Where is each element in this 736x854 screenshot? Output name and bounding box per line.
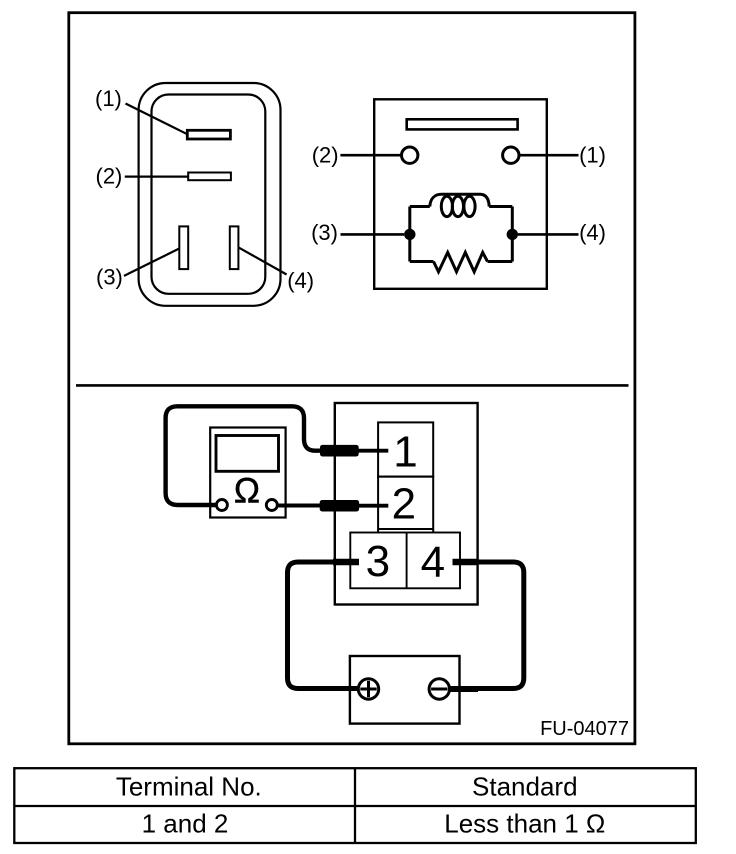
leader line (2) schematic bbox=[340, 154, 401, 157]
svg-text:(3): (3) bbox=[96, 264, 123, 289]
battery box bbox=[350, 656, 460, 724]
ohmmeter body bbox=[210, 428, 285, 518]
ohmmeter positive jack bbox=[266, 500, 277, 511]
leader line (4) bbox=[238, 247, 286, 274]
svg-text:(2): (2) bbox=[312, 143, 339, 168]
leader line (1) schematic bbox=[519, 154, 578, 157]
leader line (1) bbox=[126, 104, 188, 135]
probe tip at terminal 2 bbox=[320, 500, 359, 512]
leader line (3) bbox=[124, 248, 180, 276]
svg-text:2: 2 bbox=[392, 479, 416, 528]
section divider line bbox=[76, 384, 629, 387]
svg-text:Terminal No.: Terminal No. bbox=[116, 771, 262, 801]
standards table bbox=[14, 768, 696, 843]
svg-text:1: 1 bbox=[393, 427, 417, 476]
node (3) junction dot bbox=[404, 229, 415, 240]
terminal box 2 side stubs bbox=[377, 529, 379, 533]
battery negative terminal symbol bbox=[429, 679, 449, 699]
test lead from ohmmeter right jack to terminal 2 bbox=[277, 504, 321, 508]
coil L (relay winding) bbox=[430, 194, 489, 216]
leader line (2) bbox=[125, 176, 188, 178]
ohmmeter display window bbox=[216, 436, 279, 472]
wire top-right segment bbox=[489, 205, 512, 208]
wire top-left segment bbox=[410, 205, 430, 208]
svg-text:Ω: Ω bbox=[234, 472, 260, 511]
svg-text:1 and 2: 1 and 2 bbox=[142, 809, 229, 839]
contact terminal circle (2) bbox=[402, 147, 418, 163]
svg-text:(2): (2) bbox=[96, 163, 123, 188]
svg-text:(1): (1) bbox=[579, 143, 606, 168]
wire probe 2 into box bbox=[359, 504, 388, 508]
connector inner outline bbox=[152, 95, 266, 294]
terminal box 1 bbox=[378, 422, 433, 476]
terminal slot (1) bbox=[187, 130, 230, 139]
resistor R (relay resistor) bbox=[434, 252, 488, 271]
relay mounting bar bbox=[407, 119, 518, 129]
svg-text:(4): (4) bbox=[287, 268, 314, 293]
leader line (4) schematic bbox=[518, 233, 579, 236]
wire bottom-left segment bbox=[410, 260, 434, 263]
wire left leg of coil loop bbox=[408, 207, 411, 262]
relay internal schematic box bbox=[374, 99, 547, 288]
terminal box 2 bbox=[378, 477, 433, 529]
battery wire from terminal 4 to negative post bbox=[450, 562, 524, 689]
terminal slot (3) bbox=[179, 226, 188, 269]
battery wire from terminal 3 to positive post bbox=[288, 562, 360, 689]
terminal slot (4) bbox=[230, 226, 239, 269]
svg-text:(3): (3) bbox=[311, 220, 338, 245]
ohmmeter negative jack bbox=[216, 500, 227, 511]
wire probe 1 into box bbox=[359, 449, 389, 453]
relay body outline (test hookup) bbox=[335, 403, 478, 605]
svg-text:FU-04077: FU-04077 bbox=[540, 718, 629, 740]
terminal boxes 3 and 4 row bbox=[350, 533, 460, 589]
svg-text:Standard: Standard bbox=[472, 771, 578, 801]
wire bottom-right segment bbox=[488, 260, 513, 263]
terminal slot (2) bbox=[188, 173, 231, 181]
connector outer outline (relay socket face view) bbox=[139, 83, 281, 306]
svg-text:Less than 1 Ω: Less than 1 Ω bbox=[444, 809, 605, 839]
svg-text:3: 3 bbox=[366, 537, 390, 586]
probe tip at terminal 1 bbox=[320, 445, 359, 457]
svg-text:(4): (4) bbox=[579, 220, 606, 245]
svg-text:(1): (1) bbox=[95, 86, 122, 111]
wire right leg of coil loop bbox=[511, 207, 514, 262]
test lead cable from ohmmeter left jack looping to terminal 1 bbox=[166, 406, 322, 505]
leader line (3) schematic bbox=[341, 233, 405, 236]
svg-text:4: 4 bbox=[421, 538, 445, 587]
node (4) junction dot bbox=[507, 229, 518, 240]
battery positive terminal symbol bbox=[358, 679, 378, 699]
contact terminal circle (1) bbox=[503, 147, 519, 163]
